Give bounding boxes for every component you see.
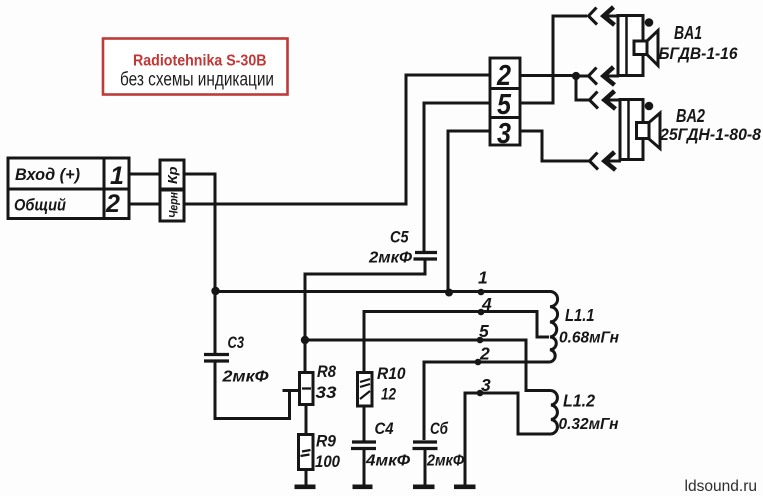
svg-text:2: 2 (479, 344, 490, 364)
wire cell3 right, down, to BA2 bottom connector (520, 131, 589, 161)
svg-text:1: 1 (478, 268, 488, 288)
wire C4 to ground (363, 449, 366, 486)
wire input pin2 to Cherny (129, 203, 160, 206)
polarity dot BA1 (645, 18, 654, 27)
svg-text:BA2: BA2 (676, 106, 705, 126)
ground for C4 (353, 485, 373, 490)
resistor R9 (299, 435, 314, 470)
resistor R8 (300, 373, 314, 405)
svg-text:4мкФ: 4мкФ (365, 453, 411, 470)
svg-text:БГДВ-1-16: БГДВ-1-16 (659, 44, 738, 63)
resistor R10 (358, 373, 373, 407)
svg-text:0.68мГн: 0.68мГн (559, 330, 619, 347)
speaker BA1 body (618, 16, 658, 76)
wire node B to BA1 bottom connector (576, 75, 588, 78)
svg-text:С3: С3 (228, 333, 245, 352)
svg-text:Radiotehnika S-30B: Radiotehnika S-30B (133, 53, 267, 70)
node C junction (301, 336, 309, 344)
wire net 4: R10 top to L1.1 tap (364, 312, 549, 374)
wire tag Cherny (black wire label) (160, 190, 184, 221)
svg-text:2мкФ: 2мкФ (221, 369, 269, 386)
terminal dot 3 (477, 390, 484, 397)
svg-text:3: 3 (481, 375, 491, 395)
capacitor C4 (351, 442, 376, 449)
capacitor C5 (414, 253, 438, 260)
svg-text:2: 2 (105, 190, 120, 218)
wire net 3: ground stub to L1.2 bottom (465, 393, 551, 486)
svg-text:R10: R10 (377, 365, 406, 383)
capacitor C3 (204, 355, 229, 362)
svg-text:R9: R9 (316, 433, 337, 451)
svg-text:R8: R8 (317, 363, 337, 381)
wire net 1: node A to L1.1 top (215, 290, 550, 293)
node A junction (211, 287, 219, 295)
wire R10 to C4 (363, 406, 366, 441)
svg-text:2мкФ: 2мкФ (426, 453, 464, 470)
wire cell5 left to C5 (424, 103, 490, 252)
svg-text:33: 33 (316, 384, 337, 402)
ground for net 3 (454, 485, 476, 490)
ground for R9 (295, 485, 316, 490)
svg-text:1: 1 (110, 162, 124, 190)
node B junction (572, 72, 580, 80)
connector pair BA2 top (590, 91, 622, 109)
svg-text:3: 3 (497, 118, 511, 150)
wire cell5 right, up, to BA1 top connector (520, 16, 587, 103)
svg-text:5: 5 (479, 321, 489, 341)
svg-text:2: 2 (496, 60, 511, 92)
wire tag Kr (red wire label) (160, 160, 184, 189)
wire cell3 left down to node D (448, 131, 490, 292)
svg-text:4: 4 (481, 294, 492, 314)
wire R8 to R9 (305, 405, 308, 436)
connector block X2 cells 2/5/3 (490, 58, 520, 150)
wire Cherny right, up, to connector cell 2 (184, 75, 490, 204)
svg-text:С5: С5 (390, 228, 409, 247)
svg-text:ldsound.ru: ldsound.ru (685, 478, 758, 495)
title box (103, 39, 288, 95)
wire C3 bottom to R8 left tap (215, 361, 300, 419)
wire node C down to R8 (304, 340, 307, 373)
capacitor C6 (413, 442, 438, 449)
terminal dot 1 (478, 289, 485, 296)
svg-text:Вход (+): Вход (+) (15, 165, 80, 184)
wire cell2 right to node B (520, 74, 576, 77)
terminal dot 2 (475, 359, 482, 366)
wire net 2: C6 top to L1.1 bottom (424, 362, 550, 440)
wire net 5: node C to L1.2 top (305, 340, 551, 391)
svg-text:2мкФ: 2мкФ (368, 250, 413, 267)
wire R9 to ground (305, 470, 308, 486)
svg-text:Общий: Общий (14, 196, 67, 215)
wire node B down to BA2 top connector (576, 76, 589, 100)
svg-text:Сб: Сб (430, 420, 449, 438)
inductor L1.1 (550, 292, 558, 363)
node D junction (445, 289, 453, 297)
svg-text:12: 12 (381, 386, 396, 404)
svg-text:Кр: Кр (165, 166, 180, 184)
svg-text:L1.2: L1.2 (563, 391, 595, 411)
svg-text:Черн: Черн (167, 191, 181, 218)
svg-text:0.32мГн: 0.32мГн (559, 416, 619, 433)
ground for C6 (413, 485, 435, 490)
wire input pin1 to Kr (129, 173, 160, 176)
terminal dot 5 (477, 337, 484, 344)
connector pair BA1 top (589, 7, 620, 25)
wire C5 bottom to node C (305, 259, 425, 340)
input terminal block X1 (8, 158, 129, 219)
inductor L1.2 (551, 391, 557, 435)
wire C6 to ground (424, 449, 427, 486)
svg-text:L1.1: L1.1 (565, 305, 595, 325)
svg-text:BA1: BA1 (674, 23, 702, 43)
svg-text:100: 100 (315, 453, 341, 471)
svg-text:С4: С4 (375, 420, 394, 438)
connector pair BA1 bottom (589, 67, 620, 85)
svg-text:25ГДН-1-80-8: 25ГДН-1-80-8 (659, 125, 761, 144)
speaker BA2 body (620, 100, 660, 160)
terminal dot 4 (478, 309, 485, 316)
polarity dot BA2 (645, 102, 654, 111)
wire Kr right then down to node A (184, 174, 215, 291)
connector pair BA2 bottom (590, 152, 622, 170)
svg-text:без схемы индикации: без схемы индикации (120, 69, 274, 91)
svg-text:5: 5 (497, 89, 512, 121)
wire node A down to C3 (214, 291, 217, 354)
